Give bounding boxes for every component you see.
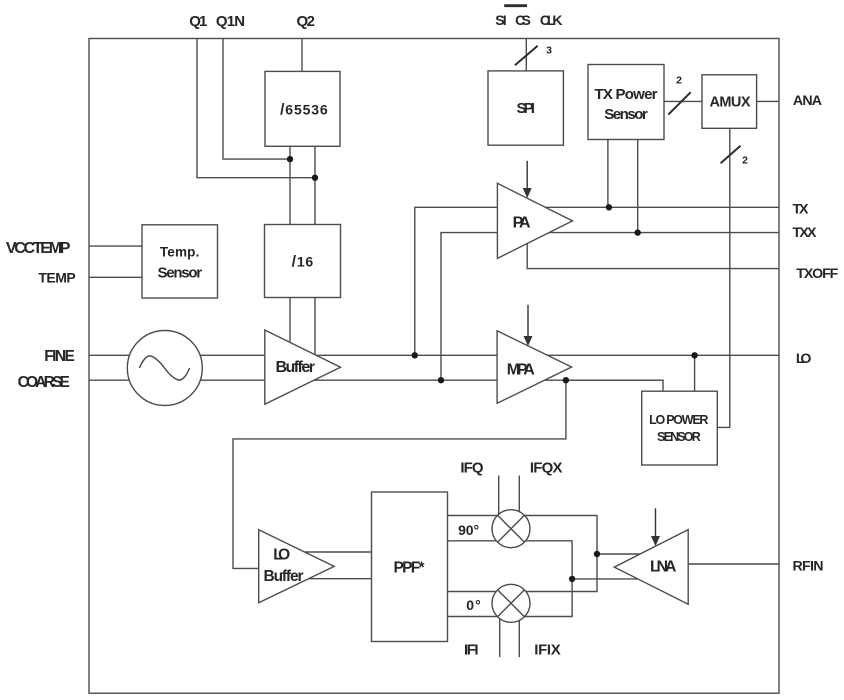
svg-text:TXOFF: TXOFF <box>796 266 838 282</box>
svg-text:ANA: ANA <box>793 93 822 109</box>
svg-text:Sensor: Sensor <box>158 265 203 282</box>
svg-text:Q2: Q2 <box>296 13 315 30</box>
svg-text:Q1N: Q1N <box>216 13 245 30</box>
svg-text:TXX: TXX <box>793 225 818 241</box>
svg-text:TX: TX <box>793 202 810 218</box>
svg-text:CLK: CLK <box>540 12 563 28</box>
svg-text:COARSE: COARSE <box>18 374 70 391</box>
svg-text:SI: SI <box>495 12 506 28</box>
svg-text:TX Power: TX Power <box>595 86 658 103</box>
svg-text:3: 3 <box>546 44 552 56</box>
svg-text:IFQX: IFQX <box>530 460 563 477</box>
svg-text:LNA: LNA <box>650 558 677 575</box>
svg-text:SPI: SPI <box>516 100 535 117</box>
svg-text:90°: 90° <box>458 522 479 538</box>
svg-text:LO: LO <box>273 547 290 564</box>
svg-text:/16: /16 <box>292 254 314 271</box>
svg-text:RFIN: RFIN <box>793 559 824 575</box>
svg-text:2: 2 <box>676 75 682 87</box>
svg-text:LO: LO <box>796 351 812 367</box>
svg-text:Buffer: Buffer <box>264 568 304 585</box>
svg-text:TEMP: TEMP <box>38 270 75 286</box>
svg-text:PPF*: PPF* <box>394 560 426 577</box>
svg-text:FINE: FINE <box>44 348 75 365</box>
svg-text:2: 2 <box>742 155 748 167</box>
svg-text:SENSOR: SENSOR <box>657 430 701 444</box>
svg-text:Temp.: Temp. <box>160 244 200 259</box>
svg-text:VCCTEMP: VCCTEMP <box>6 240 71 257</box>
svg-text:0°: 0° <box>466 597 481 613</box>
svg-text:IFIX: IFIX <box>534 642 561 659</box>
svg-text:AMUX: AMUX <box>710 95 751 111</box>
svg-text:MPA: MPA <box>507 361 535 378</box>
svg-text:Buffer: Buffer <box>275 359 315 376</box>
svg-text:LO POWER: LO POWER <box>649 413 708 427</box>
svg-text:Q1: Q1 <box>189 13 207 30</box>
svg-text:IFQ: IFQ <box>460 460 484 477</box>
svg-text:IFI: IFI <box>464 642 479 659</box>
svg-text:CS: CS <box>515 12 531 28</box>
svg-text:Sensor: Sensor <box>604 106 648 123</box>
svg-text:/65536: /65536 <box>280 101 328 118</box>
svg-text:PA: PA <box>513 215 531 232</box>
